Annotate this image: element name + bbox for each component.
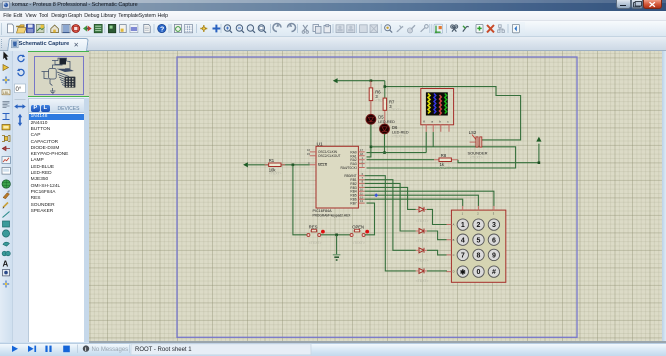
wire RB5 to keypad col 2 [365, 195, 479, 206]
wire D1 to keypad row A [427, 209, 447, 224]
sheet border [177, 57, 577, 337]
wire RB0 to row D [365, 176, 416, 271]
node junction R7 top [384, 85, 387, 88]
resistor R6 [369, 81, 388, 115]
wire display net horizontal [367, 147, 516, 168]
wire RB4 to keypad col 3 [365, 191, 494, 206]
wire D3 to keypad row C [427, 250, 447, 255]
wire RES to ground junction to OPEN [321, 234, 350, 236]
wire RB3 to row A diode [365, 187, 416, 209]
sounder LS2 [468, 130, 488, 160]
wire display pin 2 drop [432, 132, 434, 147]
diode D3 [416, 248, 429, 263]
display pins [426, 125, 449, 132]
title bar app icon [3, 2, 10, 9]
wire D6 cathode to RA0 net [384, 134, 386, 153]
keypad col pin stubs [463, 206, 494, 210]
wire D2 to keypad row B [427, 231, 447, 240]
keypad row pin stubs [447, 225, 452, 272]
LED D6 [380, 124, 409, 138]
node marker (blue diamond) on RB5 [374, 193, 378, 197]
push button RES [307, 225, 325, 245]
wire OPEN to RB7 [365, 203, 374, 235]
LED D5 [366, 114, 395, 128]
wire RA2 to R8 [367, 159, 435, 161]
pin stubs left [310, 152, 316, 165]
pin names [318, 150, 341, 167]
diode D1 [416, 207, 429, 223]
pin numbers [307, 148, 364, 203]
tab icon [12, 40, 19, 48]
diode D4 [416, 268, 429, 283]
status bar sim buttons [12, 344, 311, 355]
power arrow P2 (up) [536, 137, 541, 142]
node junction MCLR/R1 [292, 164, 295, 167]
toolbar icons [8, 24, 520, 34]
wire top rail [337, 80, 384, 82]
power arrow P1 (left, top rail) [333, 78, 338, 83]
node junction power arrow [538, 161, 541, 164]
resistor R1 [248, 158, 310, 176]
wire MCLR junction down to buttons [293, 165, 307, 235]
keypad KP1 [447, 206, 506, 282]
resistor R8 [434, 153, 458, 170]
wire RB6 to keypad col 1 [365, 199, 463, 206]
toolbar separators [47, 24, 508, 33]
power arrow P3 (left, MCLR rail) [243, 162, 248, 167]
resistor R7 [383, 87, 402, 124]
push button OPEN [350, 225, 369, 245]
wire RB2 to row B diode [365, 183, 416, 231]
wire RB1 to row C diode [365, 180, 416, 251]
wire R8 to power rail [458, 144, 539, 163]
wire top rail drop [385, 81, 521, 140]
pin stubs right [358, 152, 364, 168]
wire RA0 to display pin 1 [367, 132, 427, 153]
ground [333, 235, 341, 260]
window button glyphs [620, 5, 626, 7]
preview mini-schematic [42, 58, 76, 94]
node junction ground [335, 234, 338, 237]
wire D4 to keypad row D [427, 270, 447, 273]
rotate column icons [14, 54, 26, 126]
node junction D6 / RA0 [383, 151, 386, 154]
node junction D5 / display net [370, 146, 373, 149]
microcontroller U1 PIC16F84A [307, 141, 365, 217]
node junction top rail / R6 [370, 79, 373, 82]
left strip icons [2, 52, 10, 288]
diode D2 [416, 229, 429, 244]
bargraph display U2 [421, 89, 454, 132]
wire D5 cathode to RA1 [367, 124, 371, 157]
